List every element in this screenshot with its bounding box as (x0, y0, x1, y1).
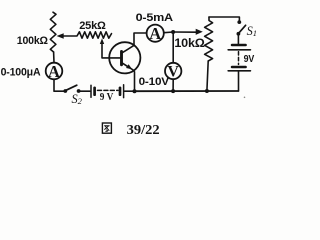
svg-text:A: A (149, 24, 161, 43)
wire S1 to battery B1 (237, 36, 239, 44)
wire R2 wiper to transistor base (100, 38, 122, 58)
wire wiper arrow into 10k (173, 29, 203, 35)
svg-text:39/22: 39/22 (127, 123, 160, 138)
caption 图 (drawn glyph) (102, 123, 111, 133)
wire collector riser to ammeter A2 (134, 33, 146, 45)
wire top rail (209, 17, 239, 20)
wire A2 to node (164, 31, 173, 34)
ammeter A1 0-100uA (1, 62, 63, 81)
svg-text:V: V (167, 64, 179, 81)
switch S2 (63, 85, 82, 106)
battery B1 9V (right) (228, 45, 254, 71)
node voltmeter bottom (171, 89, 175, 93)
node voltmeter top junction (171, 30, 175, 34)
svg-text:0-10V: 0-10V (139, 76, 170, 88)
wire voltmeter branch (172, 32, 174, 63)
svg-text:0-100μA: 0-100μA (1, 66, 41, 78)
switch S1 (237, 20, 258, 38)
svg-text:A: A (48, 62, 60, 81)
voltmeter V1 0-10V (139, 63, 182, 88)
resistor R1 100k (17, 12, 56, 52)
svg-text:25kΩ: 25kΩ (79, 20, 106, 32)
node emitter/battery junction (133, 89, 137, 93)
wire R1 bottom to ammeter A1 (53, 52, 55, 63)
wire emitter drop (134, 72, 136, 91)
battery B2 9V (bottom) (91, 85, 124, 103)
wire S2 to battery B2 (80, 90, 90, 92)
wire 10k bottom lead (207, 61, 208, 91)
svg-text:9V: 9V (244, 53, 255, 65)
svg-text:10kΩ: 10kΩ (174, 38, 204, 50)
node 10k bottom (205, 89, 209, 93)
wire battery B2 to emitter node (125, 90, 135, 92)
wire battery B1 to bottom rail (238, 72, 240, 91)
speckle (244, 97, 246, 99)
resistor R2 25k with wiper arrow to R1 (57, 20, 112, 39)
ammeter A2 0-5mA (136, 12, 173, 43)
resistor R3 10k (174, 17, 212, 61)
wire A1 down to bottom rail (54, 79, 64, 91)
svg-text:100kΩ: 100kΩ (17, 35, 48, 47)
svg-text:9 V: 9 V (100, 91, 114, 103)
wire bottom rail (135, 90, 239, 92)
wire voltmeter to bottom rail (172, 79, 174, 91)
svg-text:0-5mA: 0-5mA (136, 12, 173, 24)
transistor Q1 (109, 42, 140, 73)
